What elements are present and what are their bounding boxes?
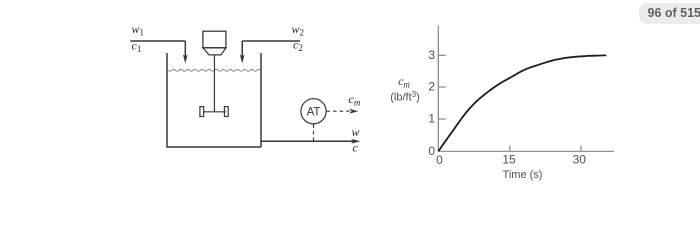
cm signal arrowhead — [349, 109, 358, 114]
svg-text:15: 15 — [502, 152, 516, 166]
y tick 3 — [438, 54, 446, 56]
tank (stirred vessel walls and bottom) — [167, 53, 261, 147]
motor (drive housing) — [203, 31, 226, 55]
outlet arrow — [351, 139, 360, 144]
x tick 15 — [509, 146, 511, 152]
inlet arrow 1 — [183, 54, 188, 63]
svg-text:cm: cm — [398, 74, 410, 90]
svg-text:0: 0 — [428, 144, 435, 158]
impeller bar — [203, 111, 226, 113]
x tick 30 — [580, 146, 582, 152]
impeller blade left — [200, 107, 204, 117]
y tick 1 — [438, 118, 446, 120]
svg-text:30: 30 — [573, 153, 587, 167]
inlet pipe 2 (w2,c2 feed line) — [242, 41, 300, 59]
inlet arrow 2 — [240, 54, 245, 63]
svg-text:2: 2 — [428, 80, 435, 94]
chart x-axis — [438, 150, 614, 152]
svg-text:0: 0 — [436, 153, 443, 167]
svg-text:(lb/ft3): (lb/ft3) — [390, 90, 420, 104]
svg-text:1: 1 — [428, 112, 435, 126]
liquid surface (wavy line) — [168, 69, 260, 71]
svg-text:c: c — [353, 141, 359, 155]
svg-text:c2: c2 — [293, 38, 303, 54]
response curve cm(t) — [438, 55, 606, 151]
svg-text:3: 3 — [428, 48, 435, 62]
svg-text:cm: cm — [349, 92, 361, 108]
svg-text:w1: w1 — [132, 22, 145, 38]
outlet pipe (w,c exit line) — [261, 140, 354, 142]
svg-text:w: w — [352, 125, 360, 139]
y tick 2 — [438, 86, 446, 88]
impeller blade right — [224, 107, 228, 117]
svg-text:w2: w2 — [292, 22, 305, 38]
signal line cm (dashed) — [327, 110, 352, 112]
svg-text:AT: AT — [307, 106, 321, 118]
signal line AT to pipe (dashed) — [313, 124, 315, 141]
agitator shaft — [213, 55, 215, 112]
page indicator badge 96 of 515 — [639, 3, 700, 24]
analyzer transmitter AT circle — [301, 99, 326, 124]
inlet pipe 1 (w1,c1 feed line) — [130, 41, 185, 59]
chart y-axis — [437, 26, 439, 152]
svg-text:Time (s): Time (s) — [503, 169, 543, 181]
